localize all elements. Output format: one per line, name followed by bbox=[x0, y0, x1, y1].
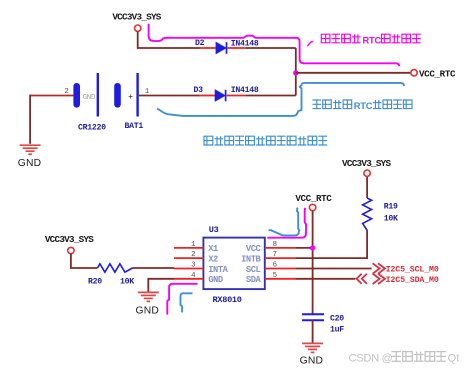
svg-text:R20: R20 bbox=[88, 277, 102, 286]
power port VCC3V3_SYS (top) bbox=[112, 11, 161, 31]
wire R19 up to VCC3V3_SYS port bbox=[366, 176, 368, 198]
svg-text:IN4148: IN4148 bbox=[231, 39, 259, 48]
svg-text:INTB: INTB bbox=[241, 254, 261, 264]
power port VCC_RTC (top right) bbox=[411, 69, 456, 80]
svg-text:7: 7 bbox=[273, 251, 277, 259]
svg-text:GND: GND bbox=[300, 356, 323, 367]
wire R20 to pin 3 bbox=[132, 267, 174, 269]
svg-text:VCC_RTC: VCC_RTC bbox=[419, 69, 456, 80]
annotation text: no charging of battery here (blue) bbox=[204, 136, 327, 145]
power port VCC3V3_SYS (mid left) bbox=[45, 234, 94, 254]
ground (mid, below pin 4) bbox=[138, 292, 159, 301]
svg-text:SDA: SDA bbox=[246, 275, 262, 285]
harness chevrons I2C5_SDA_M0 bbox=[373, 274, 385, 284]
svg-text:D2: D2 bbox=[195, 39, 205, 48]
pin 8 stub (VCC) bbox=[265, 247, 296, 249]
svg-text:2: 2 bbox=[191, 251, 195, 259]
diode D3 bbox=[199, 90, 246, 102]
svg-text:RTC: RTC bbox=[363, 35, 382, 45]
wire battery pin2 to GND bbox=[30, 95, 74, 97]
pin 5 stub (SDA) bbox=[265, 278, 296, 280]
wire port down to R20 bbox=[71, 254, 98, 268]
svg-text:10K: 10K bbox=[120, 277, 134, 286]
resistor R20 bbox=[97, 264, 132, 272]
harness chevrons I2C5_SCL_M0 bbox=[373, 263, 385, 273]
svg-text:X1: X1 bbox=[208, 244, 218, 254]
wire pin 6 (SCL) to harness entry bbox=[295, 268, 371, 270]
annotation freehand (magenta) near chip GND pin bbox=[167, 284, 197, 315]
annotation tick before magenta text bbox=[307, 41, 313, 46]
power port VCC_RTC (middle) bbox=[295, 193, 332, 211]
annotation freehand (blue) pointing to VCC_RTC node bbox=[269, 208, 300, 236]
annotation freehand (blue) near chip GND pin bbox=[181, 293, 193, 312]
svg-text:1uF: 1uF bbox=[330, 325, 344, 334]
svg-text:BAT1: BAT1 bbox=[125, 122, 144, 131]
power port VCC3V3_SYS (right) bbox=[342, 158, 391, 176]
svg-text:INTA: INTA bbox=[208, 265, 228, 275]
IC U3 RX8010 body bbox=[203, 238, 264, 290]
wire junction column vertical bbox=[295, 48, 297, 96]
svg-text:2: 2 bbox=[64, 88, 68, 96]
svg-text:10K: 10K bbox=[384, 215, 398, 224]
watermark CSDN bbox=[349, 352, 461, 365]
junction dot pin8/VCC_RTC bbox=[310, 245, 315, 250]
junction dot at diode outputs bbox=[293, 70, 298, 75]
svg-text:5: 5 bbox=[273, 272, 277, 280]
wire pin 5 (SDA) to chevrons bbox=[295, 278, 355, 280]
svg-text:I2C5_SCL_M0: I2C5_SCL_M0 bbox=[386, 266, 439, 275]
svg-text:+: + bbox=[128, 93, 133, 102]
svg-text:C20: C20 bbox=[330, 314, 344, 323]
svg-text:GND: GND bbox=[18, 158, 41, 169]
wire D3 cathode to junction column bbox=[246, 95, 296, 97]
resistor R19 bbox=[363, 198, 372, 230]
svg-text:D3: D3 bbox=[194, 86, 204, 95]
wire D2 cathode to junction column bbox=[246, 47, 296, 49]
pin 2 stub (X2) bbox=[174, 257, 203, 259]
svg-text:R19: R19 bbox=[384, 202, 398, 211]
pin 1 stub (X1) bbox=[174, 247, 203, 249]
wire pin 7 (INTB) to R19 bbox=[295, 230, 367, 258]
pin 7 stub (INTB) bbox=[265, 257, 296, 259]
annotation freehand (magenta) pointing to VCC_RTC node bbox=[267, 208, 306, 238]
svg-text:GND: GND bbox=[208, 275, 223, 285]
capacitor C20 bbox=[302, 314, 324, 320]
svg-text:4: 4 bbox=[191, 272, 196, 280]
diode D2 bbox=[199, 42, 246, 54]
svg-text:CR1220: CR1220 bbox=[78, 124, 106, 133]
svg-text:1: 1 bbox=[191, 241, 196, 249]
svg-text:X2: X2 bbox=[208, 254, 218, 264]
wire VCC_RTC rail down to capacitor bbox=[312, 211, 314, 314]
wire VCC3V3_SYS port down then right to D2 bbox=[138, 31, 200, 48]
svg-text:SCL: SCL bbox=[246, 265, 261, 275]
ground (bottom, below C20) bbox=[302, 343, 323, 352]
svg-text:8: 8 bbox=[273, 241, 277, 249]
svg-text:U3: U3 bbox=[209, 225, 219, 235]
svg-text:RX8010: RX8010 bbox=[213, 295, 242, 305]
svg-text:IN4148: IN4148 bbox=[231, 86, 259, 95]
direction chevrons (left) on SDA bbox=[357, 274, 367, 284]
wire C20 to ground bbox=[312, 320, 314, 343]
pin 4 stub (GND) bbox=[174, 278, 203, 280]
svg-text:CSDN @: CSDN @ bbox=[349, 353, 393, 365]
svg-text:3: 3 bbox=[191, 262, 195, 270]
svg-text:VCC3V3_SYS: VCC3V3_SYS bbox=[45, 234, 94, 245]
svg-text:GND: GND bbox=[136, 306, 159, 317]
svg-text:VCC3V3_SYS: VCC3V3_SYS bbox=[112, 11, 161, 22]
annotation freehand line (blue, power-down RTC path) bbox=[157, 83, 404, 116]
wire pin 4 to ground bbox=[148, 279, 174, 292]
svg-text:GND: GND bbox=[83, 94, 96, 102]
battery BAT1 (CR1220) bbox=[73, 73, 137, 117]
annotation text: power-down RTC supply path (blue) bbox=[313, 100, 413, 111]
annotation freehand line (magenta, power-on RTC path) bbox=[149, 24, 400, 66]
annotation text: power-on RTC supply path (magenta) bbox=[321, 34, 420, 45]
wire pin 8 to rail bbox=[295, 247, 312, 249]
svg-text:RTC: RTC bbox=[354, 101, 373, 111]
wire battery pin1 to D3 anode bbox=[139, 95, 200, 97]
svg-text:6: 6 bbox=[273, 262, 277, 270]
ground (top left) bbox=[20, 145, 41, 154]
svg-text:VCC3V3_SYS: VCC3V3_SYS bbox=[342, 158, 391, 169]
svg-text:VCC: VCC bbox=[246, 244, 262, 254]
wire junction to VCC_RTC port bbox=[296, 72, 411, 74]
pin 6 stub (SCL) bbox=[265, 268, 296, 270]
svg-text:I2C5_SDA_M0: I2C5_SDA_M0 bbox=[386, 276, 439, 285]
svg-text:VCC_RTC: VCC_RTC bbox=[295, 193, 332, 204]
pin 3 stub (INTA) bbox=[174, 268, 203, 270]
svg-text:Qt: Qt bbox=[448, 353, 461, 365]
